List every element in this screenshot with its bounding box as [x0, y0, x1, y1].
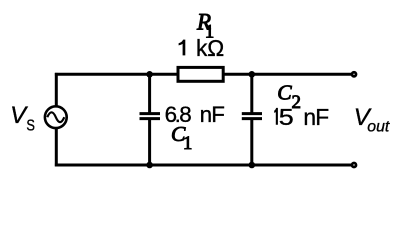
voltage source VS (circle with sine) — [45, 106, 67, 128]
svg-text:S: S — [26, 117, 35, 135]
wire C2 branch lower — [250, 119, 253, 167]
capacitor C2 plates — [242, 114, 262, 119]
svg-text:nF: nF — [303, 104, 329, 130]
wire C2 branch upper — [250, 73, 253, 114]
wire C1 branch lower — [148, 119, 151, 167]
svg-text:kΩ: kΩ — [196, 35, 224, 61]
node junction bottom C2 — [249, 162, 256, 169]
node junction top C2 — [249, 71, 256, 78]
resistor R1 (box) — [178, 67, 223, 81]
svg-text:out: out — [367, 119, 390, 136]
wire left vertical below source — [55, 128, 58, 167]
output terminal top — [352, 72, 356, 76]
wire bottom (return path) — [55, 164, 352, 167]
wire top right (R1 to output terminal) — [223, 73, 351, 76]
digit 1 of 15 nF (custom glyph) — [274, 108, 278, 125]
node junction top C1 — [146, 71, 153, 78]
wire top left (Vs to R1) — [55, 73, 178, 76]
capacitor C1 plates — [140, 114, 161, 119]
svg-text:5: 5 — [279, 105, 294, 131]
digit 1 of 1 kOhm (custom glyph) — [179, 40, 186, 56]
wire C1 branch upper — [148, 73, 151, 114]
svg-text:V: V — [10, 102, 28, 129]
output terminal bottom — [352, 163, 356, 167]
wire left vertical above source — [55, 73, 58, 107]
node junction bottom C1 — [146, 162, 153, 169]
